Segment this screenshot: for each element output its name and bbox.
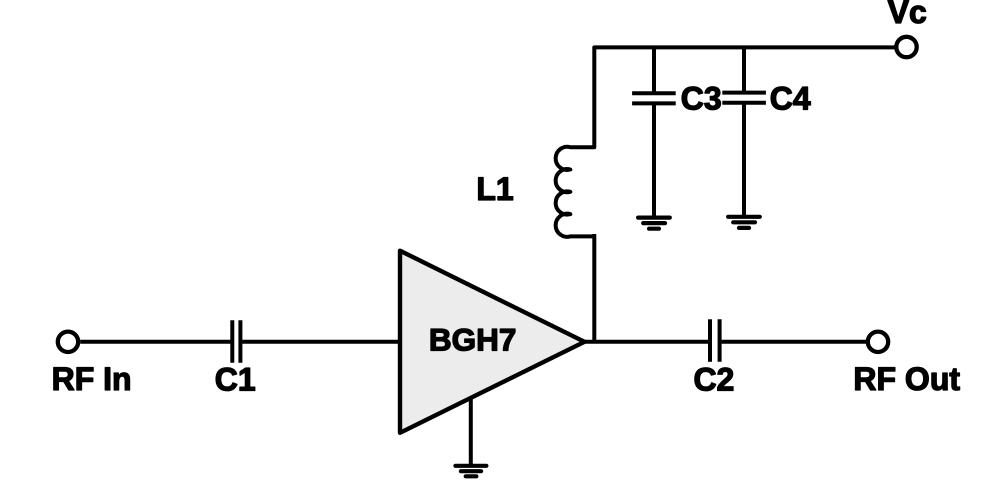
terminal Vc — [896, 37, 916, 57]
capacitor C1 — [232, 320, 240, 363]
wire C2 to RF Out — [722, 340, 866, 344]
capacitor C3 — [632, 93, 676, 103]
ground (amplifier) — [455, 466, 486, 477]
ground (C3) — [638, 218, 670, 229]
svg-text:C4: C4 — [770, 81, 811, 117]
ground (C4) — [728, 217, 760, 228]
svg-text:BGH7: BGH7 — [429, 322, 517, 358]
wire amplifier output to C2 — [583, 340, 708, 344]
svg-text:C3: C3 — [681, 81, 722, 117]
svg-text:Vc: Vc — [888, 0, 927, 30]
wire C1 to amplifier — [242, 340, 400, 344]
inductor L1 and wire to top rail and Vc — [556, 47, 895, 236]
amplifier BGH7 — [400, 251, 585, 433]
wire C4 to ground — [742, 103, 746, 217]
wire C3 to ground — [652, 103, 656, 217]
svg-text:RF Out: RF Out — [853, 361, 960, 397]
wire top rail to C4 — [742, 47, 746, 92]
terminal RF Out — [868, 332, 888, 352]
wire RF In to C1 — [80, 340, 230, 344]
svg-text:L1: L1 — [476, 171, 513, 207]
svg-text:C1: C1 — [215, 362, 256, 398]
svg-text:RF In: RF In — [52, 361, 132, 397]
capacitor C2 — [710, 319, 720, 362]
terminal RF In — [58, 332, 78, 352]
wire top rail to C3 — [652, 47, 656, 93]
node output junction / wire up to L1 — [592, 234, 596, 342]
capacitor C4 — [722, 93, 766, 103]
wire amplifier to ground — [469, 399, 473, 466]
svg-text:C2: C2 — [693, 362, 734, 398]
